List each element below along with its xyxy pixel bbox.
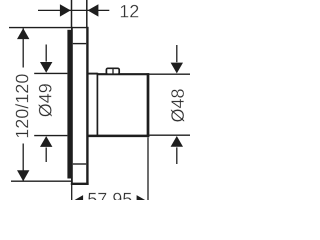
node escutcheon plate left edge — [71, 27, 73, 185]
node dim-d48 label "O48" — [171, 89, 184, 122]
node mounting flange bar — [67, 30, 72, 179]
wire dim-d48 bottom extension line — [149, 134, 190, 136]
node dim-120 arrow down — [17, 170, 29, 181]
node dim-d49 label "O49" — [39, 84, 52, 117]
wire dim-120 dimension line lower — [22, 144, 24, 182]
node handle grip front face — [147, 73, 150, 137]
wire dim-5795 extension line right — [147, 137, 149, 200]
node dim-12 arrow left — [60, 4, 71, 16]
node dim-12 label "12" — [121, 5, 139, 18]
wire dim-d48 top extension line — [149, 73, 190, 75]
wire dim-d49 upper tail — [45, 45, 47, 62]
wire dim-120 top extension line — [9, 27, 72, 29]
wire dim-d49 bottom extension line — [34, 135, 67, 137]
node dim-120 label "120/120" — [15, 74, 28, 137]
node dim-d48 arrow down — [171, 63, 183, 74]
wire plate inner edge bottom — [73, 163, 86, 165]
wire plate inner edge top — [73, 43, 86, 45]
wire dim-d48 upper tail — [176, 45, 178, 62]
node dim-5795 label "57.95" — [88, 193, 132, 206]
wire dim-12 dimension line — [38, 9, 109, 11]
wire dim-5795 extension line left — [71, 185, 73, 200]
wire dim-12 extension line left — [71, 0, 73, 28]
wire dim-120 dimension line upper — [22, 28, 24, 67]
node dim-5795 arrow left — [72, 195, 83, 207]
node escutcheon plate bottom edge — [71, 183, 89, 185]
wire dim-d49 top extension line — [34, 72, 67, 74]
wire dim-d48 lower tail — [176, 147, 178, 164]
wire safety button divider — [112, 68, 114, 74]
node escutcheon plate right edge — [86, 27, 88, 185]
node safety button tab — [106, 68, 119, 74]
node handle grip top edge — [98, 73, 150, 75]
node dim-d49 arrow down — [40, 62, 52, 73]
node dim-d48 arrow up — [171, 136, 183, 147]
node handle skirt top edge — [87, 73, 97, 75]
node handle skirt step — [96, 73, 98, 137]
node dim-120 arrow up — [17, 28, 29, 39]
node escutcheon plate top edge — [72, 27, 89, 29]
node dim-12 arrow right — [88, 4, 99, 16]
node dim-5795 arrow right — [137, 195, 148, 207]
wire dim-12 extension line right — [86, 0, 88, 28]
node dim-d49 arrow up — [40, 136, 52, 147]
wire dim-d49 lower tail — [45, 148, 47, 163]
wire dim-120 bottom extension line — [11, 180, 72, 182]
node handle bottom edge — [87, 135, 149, 138]
